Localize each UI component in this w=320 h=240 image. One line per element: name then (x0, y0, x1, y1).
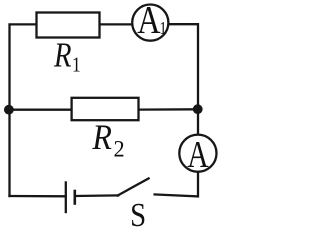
junction node right (193, 104, 203, 114)
resistor R1 box (37, 13, 100, 38)
svg-text:1: 1 (72, 54, 81, 77)
wire battery to switch pivot (75, 194, 119, 197)
label A1 (ammeter 1) (137, 0, 166, 41)
svg-text:2: 2 (114, 136, 125, 162)
svg-text:A: A (137, 0, 160, 41)
label R2 (91, 118, 124, 161)
battery long plate (65, 181, 67, 213)
ammeter A circle (179, 135, 216, 172)
label R1 (53, 35, 81, 78)
svg-text:R: R (91, 118, 112, 157)
wire R2 to right node (139, 108, 199, 111)
svg-text:1: 1 (159, 17, 166, 38)
svg-text:R: R (53, 35, 72, 75)
wire top-left (node top to R1) (10, 24, 37, 196)
battery short plate (74, 190, 77, 205)
wire A to bottom-right corner (155, 172, 198, 197)
svg-text:A: A (187, 135, 209, 176)
wire A1 to top-right corner (168, 24, 198, 135)
wire middle-left (node to R2) (10, 109, 72, 111)
wire bottom-left (node to battery) (10, 195, 66, 198)
junction node left (4, 105, 14, 115)
wire R1 to A1 (100, 23, 133, 25)
resistor R2 box (72, 98, 139, 120)
svg-text:S: S (130, 196, 146, 228)
switch S lever (118, 178, 149, 195)
ammeter A1 circle (132, 5, 168, 41)
